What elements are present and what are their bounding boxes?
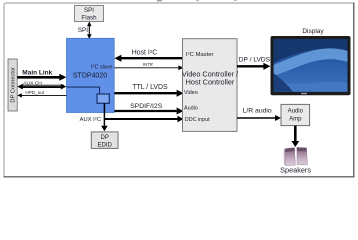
svg-text:TTL / LVDS: TTL / LVDS [132,84,168,91]
SPDIF/I2S wire [114,108,183,115]
DP / LVDS label [239,56,271,63]
L/R audio wire [237,115,281,121]
svg-text:Audio: Audio [184,105,198,111]
DP Connector J1 [8,59,17,111]
svg-text:Audio: Audio [288,109,304,115]
Audio Amp U3 [281,104,310,125]
speaker feed wire [291,126,299,147]
svg-text:INTR: INTR [143,62,153,67]
TTL / LVDS wire [114,90,183,97]
svg-text:I2C slave: I2C slave [91,64,112,71]
svg-text:AUX CH: AUX CH [23,81,42,87]
Host I2C label [132,49,157,57]
AUX I2C label [80,116,101,123]
svg-text:DP: DP [101,135,109,141]
svg-text:Main Link: Main Link [22,69,52,76]
AUX CH internal wire [67,87,100,94]
Display label [302,28,324,35]
speaker right [297,147,308,164]
svg-text:I2C Master: I2C Master [186,51,214,59]
AUX I2C wire down to EDID [101,103,108,131]
AUX mux box inside STDP4020 [97,94,109,103]
HPD_out wire [17,93,66,97]
svg-text:SPDIF/I2S: SPDIF/I2S [130,103,163,110]
svg-text:AUX I2C: AUX I2C [80,116,101,123]
outer diagram frame [4,3,354,177]
Display monitor [271,36,351,95]
svg-text:STDP4020: STDP4020 [73,73,107,80]
svg-text:L/R audio: L/R audio [243,108,272,115]
cropped text remnants at top edge [157,0,237,1]
svg-text:Amp: Amp [289,117,302,123]
DDC wire from AUX node to controller [104,116,183,122]
svg-text:Video: Video [184,90,198,96]
Video / Host Controller U2 [182,39,239,132]
svg-text:EDID: EDID [98,142,113,148]
AUX CH label [23,81,42,87]
svg-text:DDC input: DDC input [185,117,210,123]
svg-text:HPD_out: HPD_out [25,90,44,95]
DP / LVDS wire [237,63,270,70]
SPDIF/I2S label [130,103,163,110]
Main Link wire [17,74,66,81]
svg-text:Flash: Flash [81,14,97,21]
SPI Flash box [75,6,104,22]
DP EDID box [91,132,118,149]
svg-text:DP / LVDS: DP / LVDS [239,56,271,63]
SPI label [78,27,89,34]
SPI bus wire (double arrow) [87,22,92,40]
INTR label [143,62,153,67]
Main Link label [22,69,52,76]
svg-text:DP Connector: DP Connector [11,67,17,103]
svg-text:Host Controller: Host Controller [186,77,235,86]
INTR wire [114,65,183,70]
STDP4020 U1 [67,38,115,112]
svg-text:SPI: SPI [78,27,89,34]
AUX CH wire (double arrow) [17,84,66,90]
TTL / LVDS label [132,84,168,91]
Speakers label [280,165,311,174]
svg-text:SPI: SPI [84,7,94,14]
HPD_out label [25,90,44,95]
svg-text:Display: Display [302,28,324,35]
svg-text:Speakers: Speakers [280,165,311,174]
svg-text:Host I2C: Host I2C [132,49,157,57]
L/R audio label [243,108,272,115]
Host I2C wire [114,55,182,62]
speaker left [284,148,296,166]
